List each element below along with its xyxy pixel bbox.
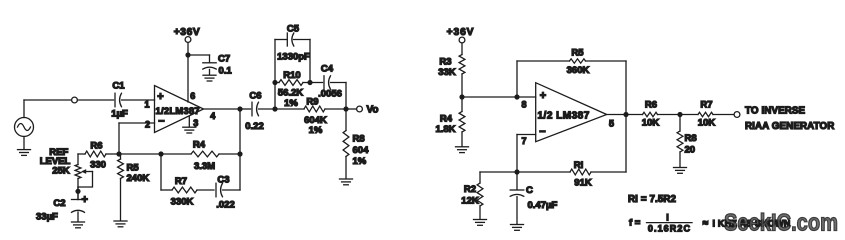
junction dot supply/C7 [185, 52, 190, 57]
svg-text:.0056: .0056 [318, 89, 342, 100]
svg-text:R7: R7 [175, 176, 187, 187]
label TO INVERSE RIAA GENERATOR [745, 106, 834, 132]
node pin2/R5/R6 [116, 151, 121, 156]
svg-text:RI = 7.5R2: RI = 7.5R2 [628, 194, 677, 205]
pin 2 wire [119, 120, 155, 155]
pin 4 output wire [204, 109, 241, 121]
op-amp U1 1/2LM387 [155, 86, 204, 133]
wire input terminal to C1 [77, 99, 113, 101]
svg-text:56.2K: 56.2K [278, 88, 303, 99]
pin 5 output wire [607, 115, 626, 129]
ground (R8) [340, 178, 353, 180]
svg-text:C6: C6 [249, 91, 261, 102]
resistor R7 330K [161, 154, 214, 208]
svg-text:C2: C2 [53, 198, 65, 209]
svg-text:0.1: 0.1 [219, 66, 233, 77]
svg-text:25K: 25K [52, 166, 70, 177]
ground (C) [511, 197, 524, 231]
svg-text:+36V: +36V [174, 27, 200, 38]
input terminal [72, 97, 78, 103]
svg-text:3.3M: 3.3M [194, 161, 215, 172]
capacitor C7 [203, 54, 233, 77]
resistor R4 3.3M [161, 140, 240, 172]
resistor R6 10K [626, 100, 680, 129]
svg-text:Vo: Vo [367, 105, 379, 116]
svg-text:+: + [157, 91, 163, 103]
svg-text:12K: 12K [461, 196, 479, 207]
ground (R5) [114, 220, 127, 222]
svg-text:.022: .022 [216, 200, 235, 211]
svg-text:0.22: 0.22 [245, 121, 264, 132]
svg-text:+36V: +36V [447, 27, 475, 38]
resistor R4 1.8K [435, 97, 464, 146]
svg-text:≈: ≈ [703, 218, 709, 229]
resistor R7 10K [680, 100, 734, 129]
node output/feedback [237, 106, 242, 111]
pin 3 ground [183, 116, 199, 133]
svg-text:8: 8 [521, 99, 526, 109]
svg-text:SeekIC.com: SeekIC.com [724, 210, 838, 237]
output terminal to RIAA [734, 112, 740, 118]
svg-text:10K: 10K [642, 118, 660, 129]
svg-text:−: − [539, 126, 545, 138]
resistor R3 33K [438, 43, 465, 97]
wire C4 branch to output node [345, 83, 347, 110]
svg-text:R7: R7 [700, 100, 712, 111]
pin 7 wire [517, 135, 536, 173]
svg-text:R6: R6 [645, 100, 657, 111]
svg-text:5: 5 [609, 119, 614, 129]
svg-text:R6: R6 [90, 140, 102, 151]
svg-text:+: + [82, 194, 88, 206]
terminal Vo [357, 105, 379, 116]
capacitor C6 [245, 91, 264, 133]
svg-text:R5: R5 [571, 48, 584, 59]
svg-text:R8: R8 [353, 134, 365, 145]
resistor R8 20 [677, 115, 697, 167]
resistor R9 604K 1% [304, 97, 327, 137]
ground (R3/R4 rail) [456, 146, 469, 148]
svg-text:33K: 33K [438, 67, 456, 78]
node A [272, 106, 277, 111]
+36V supply terminal (right) [447, 27, 475, 43]
wire C6 to node A [259, 108, 276, 110]
svg-text:6: 6 [190, 91, 195, 101]
svg-text:33µF: 33µF [36, 212, 58, 223]
svg-text:TO INVERSE: TO INVERSE [745, 106, 806, 117]
node pot/C2 [75, 189, 80, 194]
svg-text:C1: C1 [112, 81, 125, 92]
svg-text:0.16R2C: 0.16R2C [648, 224, 691, 234]
svg-text:R9: R9 [306, 97, 318, 108]
svg-text:2: 2 [145, 120, 150, 130]
svg-text:C5: C5 [287, 24, 300, 35]
node B (R10 left) [272, 80, 277, 85]
svg-text:3: 3 [193, 118, 198, 128]
resistor R8 604 1% [343, 109, 369, 178]
svg-text:C7: C7 [218, 54, 230, 65]
wire rail R6-R4 [119, 153, 161, 155]
svg-text:C4: C4 [321, 64, 334, 75]
node R6/R7/R8 [677, 112, 682, 117]
ground (R2) [474, 219, 487, 221]
wire to C7 [188, 55, 210, 62]
svg-text:R4: R4 [193, 140, 206, 151]
svg-text:1/2LM387: 1/2LM387 [156, 106, 200, 116]
ground (C7) [203, 69, 216, 81]
svg-text:C: C [526, 185, 533, 196]
wire node A to R10 node [274, 83, 276, 110]
capacitor C2 33µF [36, 187, 88, 223]
capacitor C5 1330pF [275, 24, 310, 83]
svg-text:1.8K: 1.8K [435, 124, 455, 135]
resistor R5 360K feedback [517, 48, 626, 115]
resistor R10 56.2K 1% [275, 70, 310, 109]
wire to C6 [240, 108, 251, 110]
output node Vo [343, 106, 348, 111]
note f formula [629, 213, 790, 234]
wire source to input line [24, 100, 72, 118]
svg-text:604: 604 [353, 145, 370, 156]
+36V supply terminal [174, 27, 200, 42]
wire rail to pin 8 [462, 96, 536, 98]
svg-text:1%: 1% [284, 98, 298, 109]
wire C1 to pin 1 [122, 99, 155, 101]
svg-text:330: 330 [90, 160, 106, 171]
svg-text:+: + [540, 90, 546, 102]
ground (C2) [72, 212, 85, 228]
pin 6 wire to +36V [187, 42, 189, 102]
signal source V1 [15, 118, 34, 137]
svg-text:330K: 330K [171, 197, 194, 208]
ground (signal source) [18, 137, 31, 156]
svg-text:20: 20 [685, 145, 696, 156]
svg-text:I: I [666, 213, 669, 223]
svg-text:R2: R2 [464, 184, 476, 195]
svg-text:0.47µF: 0.47µF [528, 200, 558, 211]
svg-text:360K: 360K [567, 65, 590, 76]
svg-text:1/2 LM387: 1/2 LM387 [538, 110, 590, 121]
resistor R2 12K [461, 172, 517, 219]
wire to Vo terminal [346, 108, 357, 110]
svg-text:C3: C3 [217, 175, 229, 186]
svg-text:f =: f = [629, 218, 641, 229]
node rail/C3 branch [237, 151, 242, 156]
node C (R10 right) [307, 80, 312, 85]
svg-text:1: 1 [144, 100, 149, 110]
resistor R5 240K [118, 154, 150, 220]
wire feedback riser [239, 109, 241, 154]
svg-text:−: − [158, 116, 164, 128]
ground (R8 right) [674, 167, 687, 169]
svg-text:240K: 240K [127, 173, 150, 184]
node output/feedback (right) [623, 112, 628, 117]
node R3/R4/pin8 [459, 94, 464, 99]
capacitor C4 .0056 [310, 64, 346, 100]
svg-text:1%: 1% [309, 125, 323, 136]
node rail/R7 branch [158, 151, 163, 156]
svg-text:1330pF: 1330pF [277, 52, 310, 63]
capacitor C3 .022 [216, 154, 240, 211]
svg-text:RIAA GENERATOR: RIAA GENERATOR [745, 121, 834, 132]
svg-text:10K: 10K [698, 118, 716, 129]
potentiometer REF LEVEL 25K [40, 147, 93, 200]
wire R9 to output node [325, 108, 346, 110]
op-amp U2 1/2 LM387 [536, 83, 607, 142]
svg-text:1µF: 1µF [111, 109, 128, 120]
capacitor C 0.47µF [510, 172, 557, 211]
svg-text:4: 4 [210, 111, 215, 121]
svg-text:R8: R8 [685, 133, 697, 144]
svg-text:91K: 91K [574, 178, 592, 189]
capacitor C1 [111, 81, 128, 120]
svg-text:RI: RI [574, 160, 584, 171]
resistor R6 330 [78, 140, 119, 170]
svg-text:R10: R10 [283, 70, 300, 81]
node feedback R5 tap [514, 94, 519, 99]
svg-text:7: 7 [521, 136, 526, 146]
node pin7/C/R1 [514, 169, 519, 174]
wire node A to R9 [275, 108, 304, 110]
resistor R1 91K [517, 115, 626, 189]
svg-text:1%: 1% [353, 156, 367, 167]
